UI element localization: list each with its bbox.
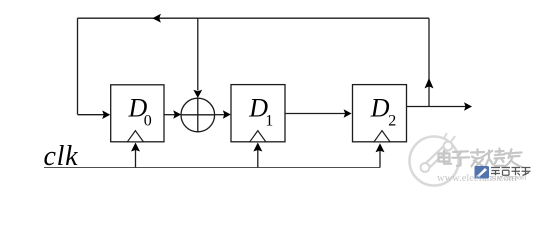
svg-text:0: 0 bbox=[144, 112, 152, 129]
arrowhead into D0 bbox=[102, 110, 110, 119]
clock triangle D1 bbox=[250, 131, 266, 142]
clock arrow to D1 bbox=[257, 149, 259, 168]
watermark logo circle bbox=[410, 131, 459, 186]
arrowhead into XOR top bbox=[193, 90, 202, 98]
clock triangle D0 bbox=[127, 131, 143, 142]
clock arrow to D0 bbox=[135, 149, 137, 168]
arrowhead into XOR bbox=[173, 110, 181, 119]
watermark badge text bbox=[491, 168, 531, 176]
left arrowhead on top feedback wire bbox=[152, 14, 161, 23]
vertical wire from feedback into XOR top bbox=[197, 18, 199, 90]
clk line bbox=[44, 167, 380, 169]
svg-text:D: D bbox=[370, 94, 390, 123]
wire XOR to D1 bbox=[215, 114, 226, 116]
vertical feedback wire up from output node bbox=[428, 18, 430, 106]
arrowhead into D1 bbox=[223, 110, 231, 119]
D flip-flop D2 box bbox=[353, 85, 407, 142]
svg-text:1: 1 bbox=[265, 112, 273, 129]
wire D1 to D2 bbox=[285, 113, 346, 115]
watermark text 电子发烧友 bbox=[439, 149, 522, 168]
top feedback wire bbox=[78, 17, 430, 19]
wire into D0 bbox=[78, 114, 105, 116]
wire D0 to XOR bbox=[164, 114, 176, 116]
up arrowhead on vertical feedback bbox=[425, 78, 434, 88]
clock arrow to D2 bbox=[379, 150, 381, 168]
watermark badge icon bbox=[475, 166, 490, 180]
output wire from D2 bbox=[407, 106, 467, 108]
clock triangle D2 bbox=[374, 131, 390, 142]
left vertical feedback wire bbox=[77, 18, 79, 114]
D flip-flop D1 box bbox=[231, 85, 285, 142]
XOR gate circle bbox=[181, 98, 215, 132]
svg-text:ec: ec bbox=[476, 174, 482, 180]
svg-text:5189-250-8081: 5189-250-8081 bbox=[491, 177, 527, 182]
output arrowhead bbox=[464, 102, 472, 111]
XOR cross bbox=[181, 98, 215, 132]
arrowhead into D2 bbox=[344, 109, 352, 118]
svg-text:2: 2 bbox=[388, 112, 396, 129]
D flip-flop D0 box bbox=[111, 85, 164, 142]
